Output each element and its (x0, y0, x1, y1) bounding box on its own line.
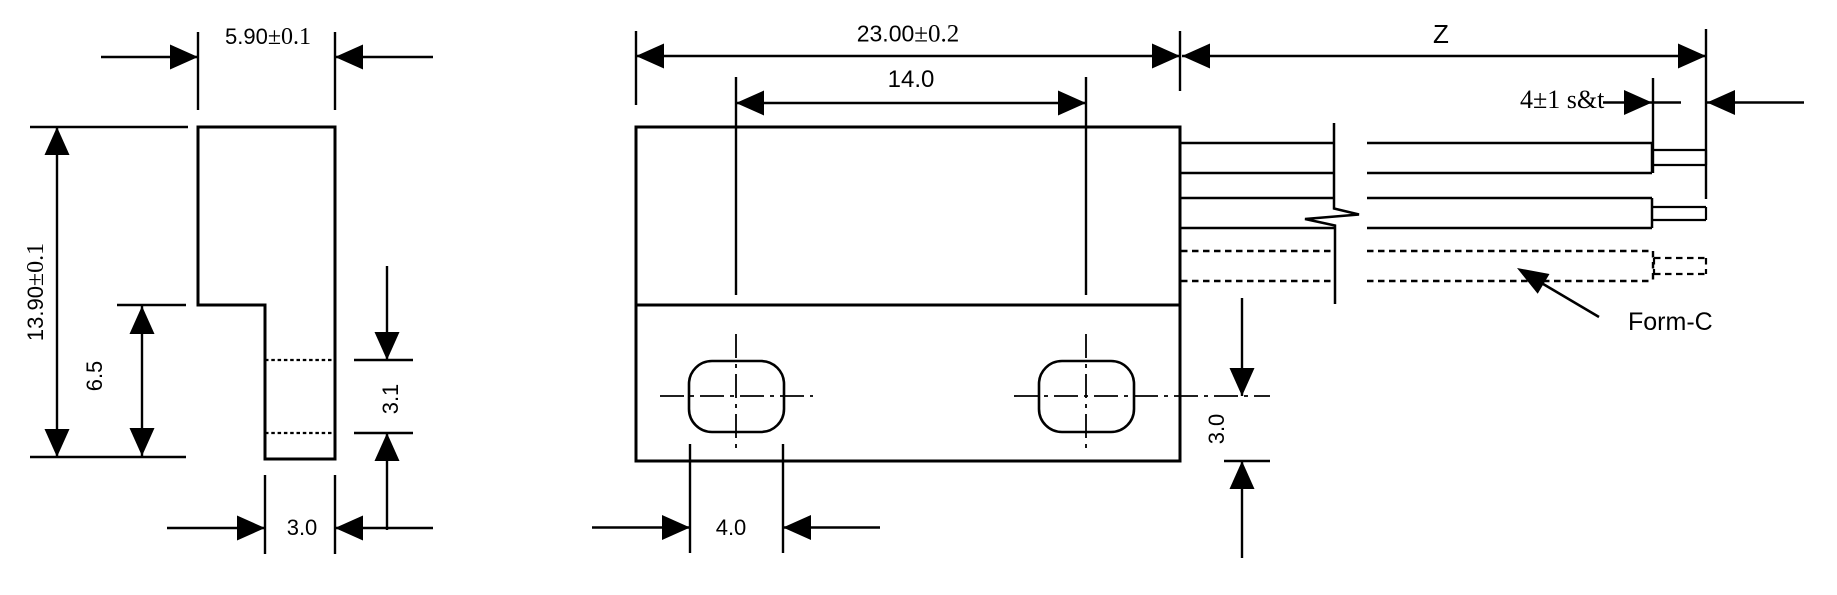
svg-text:3.0: 3.0 (287, 515, 318, 540)
svg-text:3.0: 3.0 (1204, 414, 1229, 445)
svg-text:14.0: 14.0 (888, 66, 935, 93)
svg-text:6.5: 6.5 (82, 361, 107, 392)
svg-text:4±1 s&t: 4±1 s&t (1520, 85, 1605, 114)
svg-text:3.1: 3.1 (378, 384, 403, 415)
svg-text:Form-C: Form-C (1628, 308, 1713, 336)
svg-text:4.0: 4.0 (716, 515, 747, 540)
svg-text:5.90±0.1: 5.90±0.1 (225, 24, 311, 50)
svg-text:Z: Z (1433, 19, 1449, 49)
svg-text:13.90±0.1: 13.90±0.1 (23, 243, 49, 341)
svg-text:23.00±0.2: 23.00±0.2 (857, 21, 960, 48)
